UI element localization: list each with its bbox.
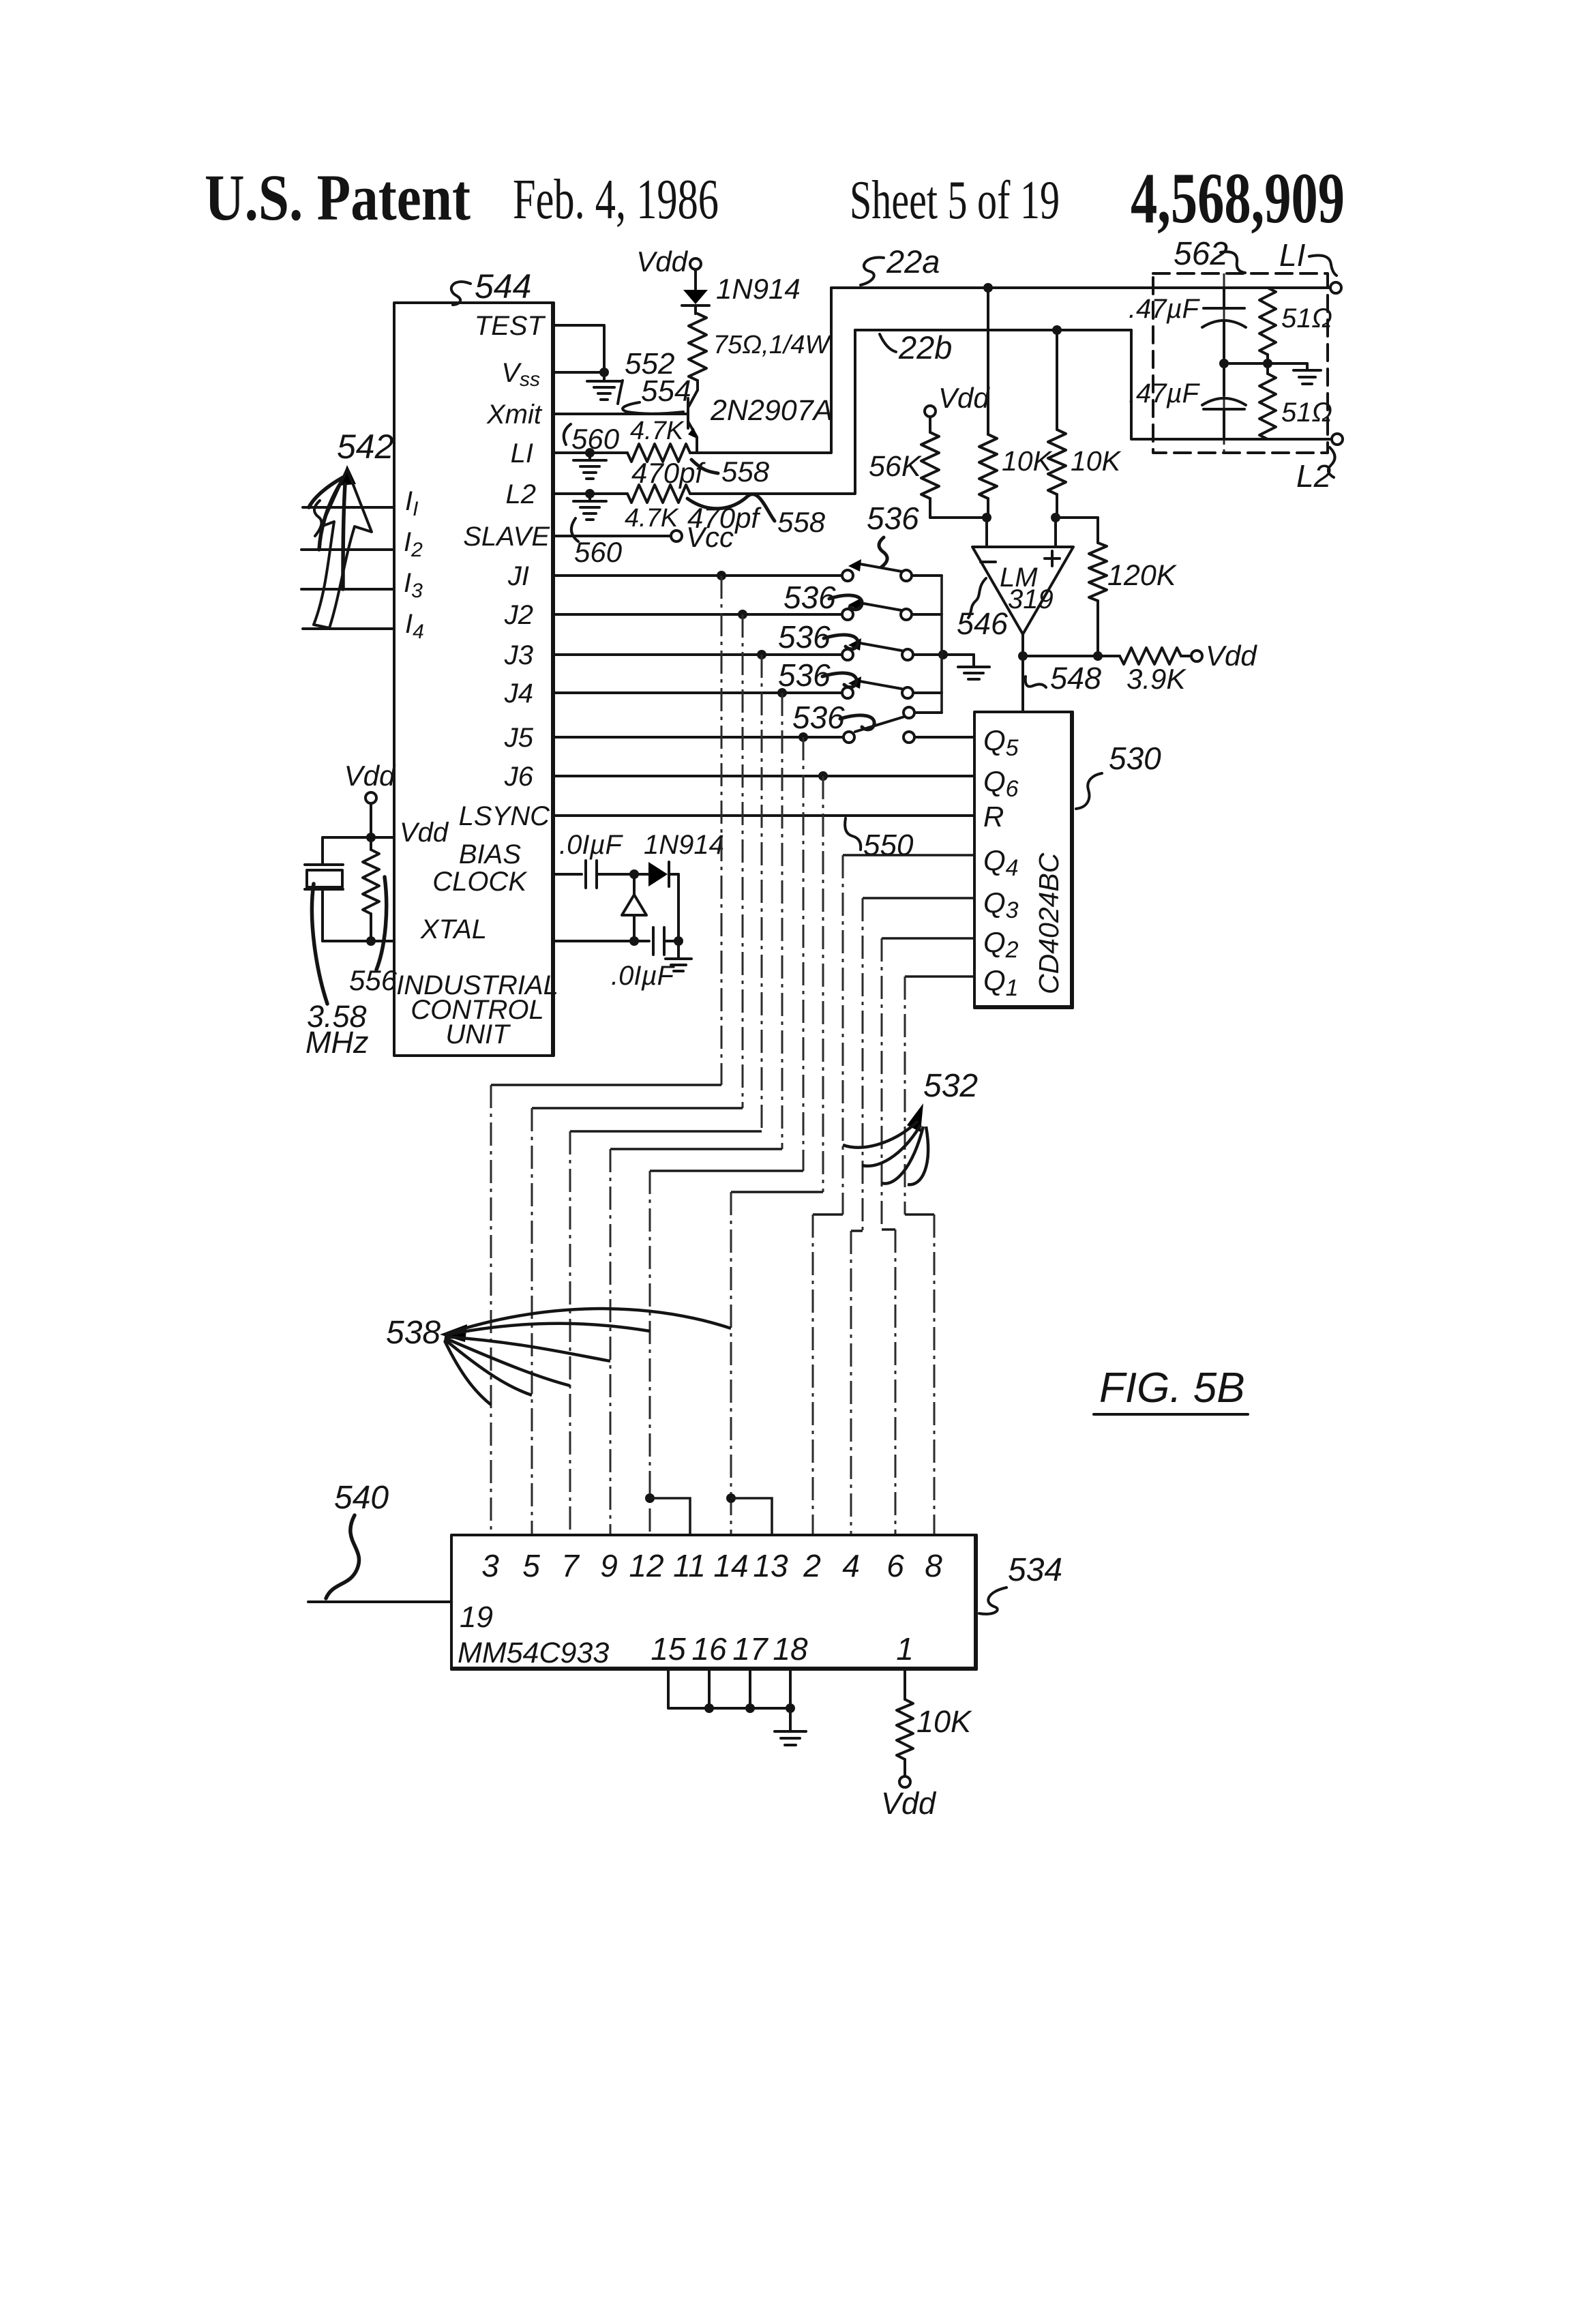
diode D 1N914 (BIAS) xyxy=(634,862,678,887)
svg-text:4.7K: 4.7K xyxy=(625,504,679,533)
wire J3 column xyxy=(570,655,762,1535)
U534 pin 19 label xyxy=(460,1600,493,1634)
svg-text:22a: 22a xyxy=(886,243,940,280)
U530 pin label Q2 xyxy=(983,926,1019,963)
arrow fan 542 xyxy=(309,465,372,628)
wire output-120K xyxy=(1023,655,1098,657)
svg-text:U.S. Patent: U.S. Patent xyxy=(205,161,471,234)
wire J2 column xyxy=(532,614,743,1535)
svg-text:22b: 22b xyxy=(898,329,952,366)
resistor R 51ohm (lower) xyxy=(1259,363,1276,439)
label 536 (SW1) xyxy=(867,501,919,567)
label 546 xyxy=(957,578,1009,641)
svg-text:542: 542 xyxy=(337,428,394,466)
svg-text:51Ω: 51Ω xyxy=(1281,303,1332,333)
wire plus to 120K xyxy=(1056,516,1098,519)
svg-text:536: 536 xyxy=(792,700,845,735)
switch SW4 blade xyxy=(848,676,901,689)
switch SW5 pole contact xyxy=(844,732,854,743)
svg-text:Feb. 4, 1986: Feb. 4, 1986 xyxy=(513,168,719,231)
svg-text:MM54C933: MM54C933 xyxy=(458,1637,609,1669)
label 536 (SW5) xyxy=(792,700,874,735)
U530 name CD4024BC xyxy=(1033,852,1064,994)
U534 pin 11 label xyxy=(673,1548,706,1583)
svg-text:CLOCK: CLOCK xyxy=(432,867,528,897)
wire plus input xyxy=(1054,518,1057,547)
svg-text:56K: 56K xyxy=(869,450,923,483)
capacitor C .01uF (XTAL) xyxy=(653,927,678,955)
U544 name text xyxy=(396,970,558,1049)
U530 pin label Q5 xyxy=(983,724,1019,761)
diode D 1N914 (top) xyxy=(682,290,709,314)
resistor R 4.7K (L2) xyxy=(627,485,690,503)
svg-text:Vdd: Vdd xyxy=(636,245,688,278)
svg-text:536: 536 xyxy=(867,501,919,536)
ground (Vss) xyxy=(587,372,621,400)
svg-text:1N914: 1N914 xyxy=(644,830,724,860)
switch SW5 blade xyxy=(855,717,904,732)
capacitor C .47uF (lower) xyxy=(1202,363,1246,439)
svg-text:Vss: Vss xyxy=(501,358,540,391)
wire XTAL row xyxy=(554,940,649,942)
wire TEST xyxy=(554,325,604,372)
svg-text:532: 532 xyxy=(923,1068,978,1104)
resistor R 75ohm xyxy=(689,314,706,381)
svg-text:18: 18 xyxy=(773,1631,808,1667)
label 22a xyxy=(861,243,940,285)
svg-text:J6: J6 xyxy=(504,762,534,792)
svg-text:2: 2 xyxy=(803,1548,821,1583)
switch SW5 upper throw contact xyxy=(904,707,914,718)
resistor R 51ohm (upper) xyxy=(1259,288,1276,363)
svg-text:1: 1 xyxy=(896,1631,914,1667)
U544 pin label L2 xyxy=(506,479,537,509)
junction Vss-TEST xyxy=(599,368,609,377)
op-amp U546 LM319 xyxy=(972,547,1073,634)
IC U530 CD4024BC box xyxy=(974,712,1073,1008)
switch SW2 pole contact xyxy=(842,609,853,620)
U534 pin 1 label xyxy=(896,1631,914,1667)
label 1N914 (top) xyxy=(716,273,801,305)
U544 pin label Vss xyxy=(501,358,540,391)
label 562 xyxy=(1174,236,1245,273)
svg-text:SLAVE: SLAVE xyxy=(463,522,550,552)
svg-text:554: 554 xyxy=(641,374,691,408)
svg-text:R: R xyxy=(983,801,1004,833)
label 10K right xyxy=(1071,445,1122,477)
label 530 xyxy=(1076,741,1161,809)
label 558 (L2) xyxy=(687,494,826,538)
wire Q4 column xyxy=(813,855,974,1535)
svg-text:558: 558 xyxy=(777,506,826,538)
svg-text:.0IµF: .0IµF xyxy=(611,961,676,991)
header: date xyxy=(513,168,719,231)
svg-text:MHz: MHz xyxy=(305,1025,368,1060)
wire Vdd down xyxy=(370,803,372,837)
svg-text:10K: 10K xyxy=(1071,445,1122,477)
header: patent number xyxy=(1131,158,1345,238)
label .01uF (XTAL) xyxy=(611,961,676,991)
junction pin18 xyxy=(786,1703,795,1713)
U544 pin label TEST xyxy=(475,311,546,341)
ground (switch bus) xyxy=(958,655,989,679)
label 51ohm upper xyxy=(1281,303,1332,333)
svg-text:16: 16 xyxy=(691,1631,727,1667)
svg-text:Xmit: Xmit xyxy=(486,400,543,430)
U544 pin label J5 xyxy=(504,723,534,753)
U530 pin label Q6 xyxy=(983,765,1019,802)
wire L1 xyxy=(554,451,627,454)
switch SW3 pole contact xyxy=(842,649,853,660)
wire minus input xyxy=(985,518,988,547)
arrow fan 532 xyxy=(843,1103,928,1185)
U534 name MM54C933 xyxy=(458,1637,609,1669)
ground (U534) xyxy=(775,1708,806,1745)
svg-text:11: 11 xyxy=(673,1548,706,1583)
wire Vdd-diode xyxy=(694,269,697,289)
junction pin17 xyxy=(745,1703,755,1713)
label 560 upper xyxy=(564,423,620,455)
wire J6 column xyxy=(731,776,823,1535)
svg-text:Vdd: Vdd xyxy=(938,382,990,414)
label 560 lower xyxy=(571,518,623,568)
arrow fan 538 xyxy=(440,1309,731,1405)
wire SW5 to Q5 xyxy=(914,736,974,739)
svg-text:LI: LI xyxy=(511,438,533,468)
U534 pin 16 label xyxy=(691,1631,727,1667)
wire I1 xyxy=(303,506,394,509)
capacitor C .01uF (BIAS) xyxy=(586,861,634,888)
label 1N914 (BIAS) xyxy=(644,830,724,860)
wire Xmit-base xyxy=(554,413,688,415)
label 536 (SW3) xyxy=(778,619,858,655)
svg-text:Q6: Q6 xyxy=(983,765,1019,802)
svg-text:3: 3 xyxy=(481,1548,499,1583)
wire 22a xyxy=(831,286,1330,289)
svg-text:15: 15 xyxy=(651,1631,686,1667)
switch SW3 blade xyxy=(848,638,901,651)
svg-text:LI: LI xyxy=(1279,237,1306,273)
label 4.7K (L2) xyxy=(625,504,679,533)
label 120K xyxy=(1107,559,1178,592)
wire SLAVE xyxy=(554,535,671,537)
label 2N2907A xyxy=(710,394,833,427)
phantom line (562 caps) xyxy=(1223,273,1225,453)
svg-text:540: 540 xyxy=(334,1480,389,1516)
label 536 (SW2) xyxy=(783,580,862,615)
wire Q3 column xyxy=(851,898,974,1535)
svg-text:J2: J2 xyxy=(504,600,533,630)
resistor R 10K (right) xyxy=(1048,330,1066,518)
IC U544 box xyxy=(394,303,554,1056)
svg-text:J4: J4 xyxy=(504,679,533,709)
terminal Vdd (3.9K) xyxy=(1191,640,1257,672)
label 10K left xyxy=(1002,445,1053,477)
svg-text:6: 6 xyxy=(886,1548,904,1583)
svg-text:4.7K: 4.7K xyxy=(630,417,685,445)
label L1 terminal xyxy=(1279,237,1337,275)
wire SW3 to ground node xyxy=(914,653,974,656)
svg-text:Q4: Q4 xyxy=(983,844,1019,881)
U544 ref label 544 xyxy=(451,267,532,306)
resistor R 56K xyxy=(921,417,939,518)
transistor Q1 2N2907A xyxy=(688,390,698,453)
wire bottom bus xyxy=(668,1669,790,1708)
svg-text:2N2907A: 2N2907A xyxy=(710,394,833,427)
wire Vdd to IC xyxy=(371,836,394,839)
svg-text:546: 546 xyxy=(957,606,1009,641)
svg-text:120K: 120K xyxy=(1107,559,1178,592)
junction output xyxy=(1018,651,1028,661)
label 51ohm lower xyxy=(1281,398,1332,428)
wire BIAS xyxy=(554,873,582,876)
svg-text:560: 560 xyxy=(574,536,623,568)
svg-text:9: 9 xyxy=(600,1548,618,1583)
svg-text:538: 538 xyxy=(386,1315,441,1351)
wire I2 xyxy=(301,548,394,551)
crystal Y1 3.58MHz xyxy=(305,865,343,941)
capacitor C .47uF (upper) xyxy=(1202,288,1246,363)
junction J1 column xyxy=(717,571,726,580)
label 10K (pin1) xyxy=(916,1704,972,1739)
svg-text:13: 13 xyxy=(753,1548,788,1583)
U534 pin 2 label xyxy=(803,1548,821,1583)
wire mid-gnd xyxy=(1224,362,1307,365)
U530 pin label Q3 xyxy=(983,887,1019,923)
U534 pin 8 label xyxy=(925,1548,942,1583)
svg-text:562: 562 xyxy=(1174,236,1228,272)
label 22b xyxy=(880,329,952,366)
resistor R 3.9K xyxy=(1098,648,1191,664)
node label 552 xyxy=(618,347,674,404)
U534 pin 13 label xyxy=(753,1548,788,1583)
wire SW2 to bus xyxy=(913,613,942,616)
svg-text:J5: J5 xyxy=(504,723,534,753)
wire L2-corner xyxy=(690,330,855,494)
wire J4 column xyxy=(610,693,782,1535)
svg-text:.0IµF: .0IµF xyxy=(559,830,624,860)
U534 pin 12 label xyxy=(629,1548,663,1583)
svg-text:Vcc: Vcc xyxy=(686,521,734,553)
terminal Vdd (XTAL) xyxy=(344,760,396,803)
svg-text:J3: J3 xyxy=(504,640,533,670)
terminal L1 xyxy=(1330,282,1341,293)
U530 pin label Q1 xyxy=(983,964,1019,1001)
wire SW1 to bus xyxy=(913,574,942,577)
wire LSYNC to R xyxy=(554,814,974,817)
wire I4 xyxy=(303,627,394,630)
svg-text:530: 530 xyxy=(1109,741,1161,776)
ground (562 box) xyxy=(1294,363,1321,384)
svg-text:LSYNC: LSYNC xyxy=(459,801,550,831)
wire J5 column xyxy=(650,737,803,1535)
svg-text:17: 17 xyxy=(732,1631,768,1667)
dashed box 562 xyxy=(1153,273,1328,453)
U544 pin label J1 xyxy=(507,561,529,591)
wire J4 to switch xyxy=(554,691,842,694)
diode D (triangle up) xyxy=(622,874,646,941)
junction BIAS node xyxy=(629,869,639,879)
svg-text:534: 534 xyxy=(1008,1552,1062,1588)
svg-text:1N914: 1N914 xyxy=(716,273,801,305)
label .47uF lower xyxy=(1129,378,1201,408)
svg-text:I3: I3 xyxy=(404,568,423,602)
svg-text:.47µF: .47µF xyxy=(1129,378,1201,408)
svg-text:7: 7 xyxy=(561,1548,580,1583)
IC U534 MM54C933 box xyxy=(451,1535,976,1669)
label 536 (SW4) xyxy=(778,657,856,693)
U534 pin 6 label xyxy=(886,1548,904,1583)
svg-text:Vdd: Vdd xyxy=(344,760,396,792)
U530 pin label R xyxy=(983,801,1004,833)
wire L2 xyxy=(554,492,627,495)
U534 pin 14 label xyxy=(713,1548,748,1583)
wire Vss xyxy=(554,371,604,374)
leader 3.58MHz to crystal xyxy=(312,884,327,1004)
wire I3 xyxy=(301,588,394,591)
U544 input label I3 xyxy=(404,568,423,602)
svg-text:FIG. 5B: FIG. 5B xyxy=(1099,1365,1245,1412)
U534 pin 15 label xyxy=(651,1631,686,1667)
terminal Vdd (pin1) xyxy=(881,1776,937,1821)
switch SW4 throw contact xyxy=(902,687,913,698)
U544 pin label Vdd inside xyxy=(400,818,449,848)
junction bus SW3 xyxy=(938,650,948,659)
wire SW5 upper to bus xyxy=(914,711,942,714)
U534 pin 18 label xyxy=(773,1631,808,1667)
label 3.9K xyxy=(1126,663,1186,695)
resistor R (XTAL) xyxy=(363,837,379,941)
junction J4 column xyxy=(777,688,787,698)
figure label FIG. 5B xyxy=(1094,1365,1248,1414)
terminal Vdd (56K) xyxy=(925,382,990,417)
svg-text:I2: I2 xyxy=(404,527,423,561)
U544 pin label J2 xyxy=(504,600,533,630)
svg-text:BIAS: BIAS xyxy=(459,839,521,869)
node label 542 xyxy=(337,428,394,466)
svg-text:JI: JI xyxy=(507,561,529,591)
junction pin14 branch xyxy=(726,1493,772,1535)
wire J2 to switch xyxy=(554,613,842,616)
svg-text:Q3: Q3 xyxy=(983,887,1019,923)
junction L2 gnd xyxy=(585,489,595,498)
svg-text:75Ω,1/4W: 75Ω,1/4W xyxy=(713,331,832,359)
U544 pin label LSYNC xyxy=(459,801,550,831)
junction XTAL node A xyxy=(629,936,639,946)
wire Q2 column xyxy=(882,938,974,1535)
svg-text:10K: 10K xyxy=(1002,445,1053,477)
junction caps mid xyxy=(1219,359,1229,368)
terminal L2 xyxy=(1332,434,1343,445)
resistor R 4.7K (L1) xyxy=(627,444,690,462)
wire 56K to minus node xyxy=(930,516,987,519)
wire J3 to switch xyxy=(554,653,842,656)
junction minus node xyxy=(982,513,991,522)
svg-text:4,568,909: 4,568,909 xyxy=(1131,158,1345,238)
svg-text:CD4024BC: CD4024BC xyxy=(1033,852,1064,994)
wire J6 to Q6 xyxy=(554,775,974,777)
junction J2 column xyxy=(738,610,747,619)
junction 22b/10K xyxy=(1052,325,1062,335)
ground (BIAS net) xyxy=(666,941,691,971)
label 554 xyxy=(623,374,691,414)
label .01uF (BIAS) xyxy=(559,830,624,860)
wire switch bus xyxy=(940,576,943,713)
label 56K xyxy=(869,450,923,483)
switch SW1 blade xyxy=(848,559,901,571)
junction pin12 branch xyxy=(645,1493,690,1535)
terminal Vcc xyxy=(671,521,734,553)
wire opamp output xyxy=(1021,634,1024,712)
svg-text:UNIT: UNIT xyxy=(445,1019,511,1049)
wire L2 box xyxy=(1131,330,1332,439)
wire L1-corner xyxy=(690,288,831,453)
wire Q1 column xyxy=(905,977,974,1535)
label .47uF upper xyxy=(1129,294,1201,324)
U544 pin label BIAS CLOCK xyxy=(432,839,528,897)
junction 22a/10K xyxy=(983,283,993,293)
U544 pin label XTAL xyxy=(420,914,487,944)
wire res-emitter xyxy=(696,381,699,390)
svg-text:Q1: Q1 xyxy=(983,964,1019,1001)
wire J1 column xyxy=(491,576,721,1535)
U544 pin label J6 xyxy=(504,762,534,792)
svg-text:Vdd: Vdd xyxy=(881,1786,937,1821)
wire diode corner xyxy=(677,874,680,941)
U544 pin label SLAVE xyxy=(463,522,550,552)
svg-text:Sheet 5 of 19: Sheet 5 of 19 xyxy=(850,170,1060,230)
junction J3 column xyxy=(757,650,766,659)
wire J5 to switch xyxy=(554,736,842,739)
label 3.58 MHz xyxy=(305,999,368,1060)
U544 pin label L1 xyxy=(511,438,533,468)
svg-text:.47µF: .47µF xyxy=(1129,294,1201,324)
svg-text:560: 560 xyxy=(571,423,620,455)
U534 pin 7 label xyxy=(561,1548,580,1583)
svg-text:Vdd: Vdd xyxy=(1206,640,1257,672)
ground (L1) xyxy=(573,453,606,479)
junction J5 column xyxy=(799,732,808,742)
svg-text:XTAL: XTAL xyxy=(420,914,487,944)
label 556 xyxy=(349,877,398,996)
U534 pin 4 label xyxy=(842,1548,860,1583)
switch SW2 throw contact xyxy=(901,609,912,620)
U534 pin 3 label xyxy=(481,1548,499,1583)
junction 120K bottom xyxy=(1093,651,1103,661)
U534 pin 17 label xyxy=(732,1631,768,1667)
wire SW4 to bus xyxy=(914,691,942,694)
junction XTAL node B xyxy=(674,936,683,946)
junction XTAL pin node xyxy=(366,936,376,946)
label 540 xyxy=(326,1480,389,1598)
switch SW3 throw contact xyxy=(902,649,913,660)
svg-text:TEST: TEST xyxy=(475,311,546,341)
svg-text:L2: L2 xyxy=(1296,458,1331,494)
U544 pin label J3 xyxy=(504,640,533,670)
junction plus node xyxy=(1051,513,1060,522)
junction Vdd node xyxy=(366,833,376,842)
label 75ohm xyxy=(713,331,832,359)
U544 pin label J4 xyxy=(504,679,533,709)
wire J1 to switch xyxy=(554,574,842,577)
svg-text:4: 4 xyxy=(842,1548,860,1583)
ground (L2) xyxy=(573,494,606,520)
wire to crystal xyxy=(323,837,371,865)
svg-text:558: 558 xyxy=(721,456,770,488)
svg-text:II: II xyxy=(405,486,418,520)
label 532 xyxy=(923,1068,978,1104)
resistor R 10K (pin1) xyxy=(897,1669,913,1776)
